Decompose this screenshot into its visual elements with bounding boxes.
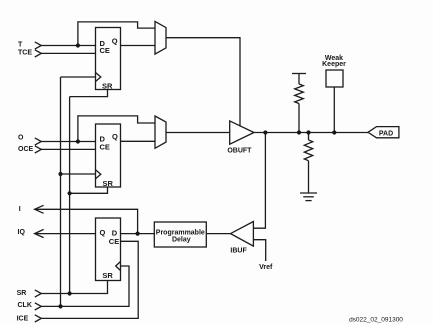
svg-text:Keeper: Keeper	[322, 61, 346, 68]
mux1	[155, 21, 166, 54]
wire FF1 Q to mux1	[121, 45, 156, 47]
junction CLK input	[58, 304, 62, 308]
wire CLK to FF3 clock	[41, 266, 129, 306]
wire pullup to pad line	[298, 104, 300, 133]
svg-text:CE: CE	[100, 46, 110, 55]
svg-text:ds022_02_091300: ds022_02_091300	[349, 317, 403, 324]
input SR chevron	[35, 290, 42, 297]
wire OCE to FF2 CE	[41, 148, 95, 150]
svg-text:SR: SR	[17, 290, 27, 297]
wire Vref to IBUF	[253, 240, 265, 261]
wire pad line to IBUF input	[253, 133, 265, 229]
input O chevron	[35, 138, 42, 145]
wire ICE to FF3 CE	[41, 241, 138, 318]
wire IBUF output to delay	[206, 233, 230, 235]
label Weak Keeper	[322, 55, 346, 68]
junction weak keeper	[332, 130, 336, 134]
wire weak keeper to pad line	[333, 87, 335, 133]
svg-text:CLK: CLK	[18, 302, 32, 309]
flip-flop IFF clock wedge	[116, 262, 121, 271]
input CLK chevron	[35, 303, 42, 310]
junction T bypass	[76, 43, 80, 47]
pad symbol	[368, 127, 399, 138]
svg-text:Programmable: Programmable	[156, 229, 205, 236]
wire SR to FF3 SR	[41, 281, 107, 294]
wire OBUFT output to PAD	[254, 132, 368, 134]
input ICE chevron	[35, 315, 42, 322]
resistor pullup	[295, 84, 304, 104]
programmable delay box	[154, 222, 206, 247]
wire mux2 output to OBUFT input	[166, 132, 230, 134]
wire I bypass	[35, 209, 138, 233]
junction O bypass	[76, 139, 80, 143]
flip-flop OFF clock wedge	[96, 170, 101, 179]
junction pullup	[297, 130, 301, 134]
junction pulldown	[306, 130, 310, 134]
junction SR input	[68, 291, 72, 295]
input T chevron	[35, 42, 42, 49]
svg-text:Q: Q	[112, 36, 118, 45]
svg-text:SR: SR	[103, 179, 114, 188]
svg-text:CE: CE	[109, 237, 119, 246]
wire O to FF2 D	[41, 141, 95, 143]
wire SR bus to FF2 SR	[70, 187, 108, 193]
svg-text:Vref: Vref	[259, 264, 273, 271]
junction CLK FF2	[58, 172, 62, 176]
svg-text:O: O	[18, 135, 24, 142]
svg-text:IBUF: IBUF	[230, 248, 247, 255]
wire SR bus vertical	[69, 97, 71, 294]
wire CLK bus vertical	[60, 77, 62, 306]
output arrow I	[35, 205, 44, 213]
svg-text:IQ: IQ	[18, 229, 26, 236]
wire pulldown to ground	[308, 161, 310, 193]
output arrow IQ	[35, 229, 44, 237]
wire FF2 Q to mux2	[121, 140, 156, 142]
wire pad line to pulldown	[308, 133, 310, 141]
wire T to FF1 D	[41, 45, 95, 47]
svg-text:TCE: TCE	[18, 50, 32, 57]
wire SR bus to FF1 SR	[70, 90, 108, 97]
wire O bypass to mux2	[78, 116, 155, 142]
junction pad IBUF	[263, 130, 267, 134]
vcc bar	[292, 74, 306, 85]
buffer OBUFT	[230, 121, 254, 144]
svg-text:OBUFT: OBUFT	[227, 148, 252, 155]
svg-text:Q: Q	[112, 132, 118, 141]
wire CLK bus to FF1 clock	[61, 76, 96, 78]
resistor pulldown	[304, 140, 312, 161]
svg-text:Q: Q	[100, 228, 106, 237]
mux2	[155, 116, 166, 148]
svg-text:OCE: OCE	[18, 146, 34, 153]
svg-text:T: T	[18, 42, 23, 49]
svg-text:PAD: PAD	[379, 130, 393, 137]
buffer IBUF	[231, 222, 254, 247]
svg-text:I: I	[19, 206, 21, 213]
ground	[300, 193, 317, 201]
junction SR FF2	[68, 191, 72, 195]
wire TCE to FF1 CE	[41, 52, 95, 54]
flip-flop OFF box	[96, 124, 121, 187]
flip-flop TFF box	[96, 28, 121, 90]
weak keeper box	[326, 70, 343, 87]
svg-text:Delay: Delay	[172, 236, 191, 243]
flip-flop IFF box	[96, 218, 121, 281]
svg-text:SR: SR	[102, 82, 113, 91]
junction I bypass	[136, 232, 140, 236]
svg-text:CE: CE	[100, 142, 110, 151]
input TCE chevron	[35, 50, 42, 57]
svg-text:ICE: ICE	[17, 316, 29, 323]
input OCE chevron	[35, 146, 42, 153]
wire mux1 output to OBUFT control	[166, 38, 240, 127]
wire delay output to FF3 D	[121, 233, 155, 235]
label Programmable Delay	[156, 229, 205, 243]
flip-flop TFF clock wedge	[96, 73, 101, 82]
wire CLK bus to FF2 clock	[61, 173, 96, 175]
wire T bypass to mux1	[78, 22, 155, 46]
wire FF3 Q to IQ	[35, 233, 96, 235]
svg-text:SR: SR	[102, 271, 113, 280]
